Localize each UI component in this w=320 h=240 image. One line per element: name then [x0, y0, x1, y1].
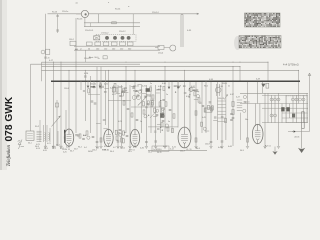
- svg-text:90-7: 90-7: [104, 149, 108, 151]
- output transformer circle: [215, 84, 221, 96]
- arrow sym right top: [308, 73, 311, 76]
- wire v x289.5: [289, 104, 291, 119]
- resistor R22: [173, 114, 175, 118]
- label 4+4 ohm: [283, 64, 299, 67]
- svg-text:90-5: 90-5: [128, 151, 132, 153]
- wire v x211: [210, 81, 212, 146]
- switch contact bank 2: [95, 42, 101, 46]
- svg-text:150-5: 150-5: [156, 90, 161, 92]
- svg-text:90-9: 90-9: [240, 150, 244, 152]
- svg-text:0-40: 0-40: [66, 147, 70, 149]
- svg-text:90-6: 90-6: [204, 86, 208, 88]
- between tube comps: [79, 129, 128, 139]
- capacitor C32: [162, 120, 165, 121]
- dense cluster det2: [116, 88, 129, 96]
- svg-text:0-21: 0-21: [47, 143, 51, 145]
- component cluster V2V3 mid: [115, 130, 125, 143]
- svg-text:150-22: 150-22: [90, 83, 96, 85]
- wire v x57: [56, 100, 58, 146]
- label U150: [101, 32, 109, 34]
- svg-text:150-12: 150-12: [119, 31, 126, 33]
- wire v x30.5: [30, 64, 32, 131]
- svg-text:0-32: 0-32: [191, 86, 195, 88]
- wire heater run y22.8: [84, 22, 140, 24]
- push button 2: [113, 36, 117, 40]
- wire keyboard row top y46.2: [74, 45, 160, 47]
- volume link wire: [88, 94, 100, 96]
- svg-text:150-8: 150-8: [64, 88, 69, 90]
- wire v x275: [274, 95, 276, 122]
- capacitor C33: [202, 105, 205, 106]
- switch box on x57: [55, 103, 58, 107]
- svg-text:CL 11: CL 11: [186, 149, 192, 151]
- wire v x41.5: [41, 62, 43, 81]
- svg-text:U 150-2: U 150-2: [101, 32, 109, 34]
- junction crosses on buses: [45, 62, 299, 71]
- wire x98.3 drop: [97, 14, 99, 23]
- label 150-12: [119, 31, 126, 33]
- label 150-16.5: [85, 30, 94, 32]
- dense cluster AF2b: [189, 88, 200, 100]
- svg-text:078 GWK: 078 GWK: [4, 96, 15, 141]
- label 0-26b: [104, 83, 108, 85]
- cluster PSU lower left: [243, 102, 250, 112]
- trimmer box T1: [103, 56, 107, 59]
- svg-text:0-36: 0-36: [140, 147, 144, 149]
- wire v x268 lower: [267, 93, 269, 122]
- wire v x178: [177, 81, 179, 127]
- wire grid bus y64.2: [31, 63, 141, 65]
- switch lamp window: [94, 36, 100, 40]
- wire v x90.5: [90, 76, 92, 133]
- capacitor C30: [230, 113, 233, 120]
- push button 4: [127, 36, 131, 40]
- svg-text:300: 300: [128, 48, 131, 50]
- more bottom text: [35, 146, 244, 153]
- IF trimmer arrow 1: [138, 96, 147, 105]
- switch contact bank 1: [87, 42, 93, 46]
- svg-text:Telefunken: Telefunken: [7, 145, 12, 167]
- junction dots on chassis bus: [53, 81, 300, 83]
- tube layout chart upper: [245, 13, 281, 27]
- wire PSU row y103.5: [240, 103, 308, 105]
- wire v x233: [232, 67, 234, 146]
- ground symbols bottom mid: [95, 146, 280, 148]
- wire v x81 stub: [80, 81, 82, 90]
- wire v x286: [285, 95, 287, 122]
- wire v x118: [117, 85, 119, 146]
- output transformer winding ladder: [237, 100, 242, 110]
- resistor R1 on heater run: [112, 22, 117, 24]
- scatter labels mid: [64, 86, 248, 123]
- wire v x121.5: [121, 85, 123, 146]
- svg-text:90-14: 90-14: [115, 9, 121, 11]
- svg-text:90-1: 90-1: [52, 146, 56, 148]
- svg-text:30-7: 30-7: [70, 151, 74, 153]
- svg-text:5n: 5n: [168, 121, 170, 123]
- capacitor C1 on x45.5: [44, 57, 47, 58]
- label ballast: [295, 136, 300, 139]
- antenna trimmer circle: [170, 45, 176, 51]
- wire AF link y100.3: [108, 99, 131, 101]
- svg-text:0-5: 0-5: [104, 146, 107, 148]
- push button 1: [105, 36, 109, 40]
- wire v x222: [221, 81, 223, 146]
- wire lamp to switch x133.2: [132, 14, 134, 35]
- switch contact bank 3: [103, 42, 109, 46]
- tap triangle 1: [87, 81, 90, 88]
- output transformer rungs: [218, 101, 226, 121]
- dial lamp L1: [76, 10, 89, 17]
- wire screen bus y66.6: [42, 66, 241, 68]
- svg-text:30-1: 30-1: [28, 143, 32, 145]
- svg-text:0-25: 0-25: [63, 152, 67, 154]
- wire link box-circle: [164, 47, 170, 49]
- wire v x259.9: [259, 104, 261, 127]
- svg-text:150-1a: 150-1a: [62, 11, 69, 13]
- wire v x101: [100, 67, 102, 146]
- label 0-17: [49, 60, 54, 62]
- wire v x298.5 upper: [298, 70, 300, 103]
- electrolytic C51 dark: [286, 107, 289, 111]
- label speaker: [256, 79, 260, 81]
- svg-text:90-8: 90-8: [196, 148, 200, 150]
- scan smudge: [234, 36, 241, 50]
- tube V1 ECH11: [64, 129, 73, 146]
- phono jack circle: [41, 50, 45, 54]
- label Abstimm: [89, 56, 99, 59]
- svg-text:0-14: 0-14: [170, 149, 174, 151]
- wire v x307: [306, 93, 308, 122]
- label row tuning bottom: [36, 148, 64, 150]
- wire PSU row y122.7: [262, 122, 308, 124]
- electrolytic C52 dark: [292, 114, 295, 118]
- cluster AF lower: [199, 102, 214, 112]
- wire v x303.5: [303, 95, 305, 122]
- svg-text:0-11: 0-11: [133, 147, 136, 149]
- wire v x57.6 top: [57, 14, 59, 33]
- cluster V4 left: [154, 127, 163, 132]
- wire v x76: [75, 18, 77, 133]
- wire anode bus y70.4: [42, 69, 299, 71]
- phono box: [46, 49, 50, 54]
- IF trimmer arrow 2: [150, 111, 157, 119]
- wire heater run y26.6: [84, 26, 140, 28]
- label 90-16: [77, 19, 83, 21]
- tap triangle 3: [99, 81, 102, 88]
- wire v x262.3 speaker drop: [261, 81, 263, 93]
- wire v x293: [292, 95, 294, 122]
- wire PSU row y108.2: [262, 107, 308, 109]
- svg-text:50n: 50n: [245, 119, 248, 121]
- resistor R24: [195, 111, 197, 115]
- component cluster between V1V2: [96, 120, 108, 129]
- wire v x135 to tube V3: [134, 70, 136, 129]
- junction mains: [292, 130, 295, 132]
- wire v x268 upper: [267, 62, 269, 81]
- tube V2 EBF11: [104, 129, 113, 146]
- label 0-47: [236, 97, 240, 99]
- heater chain circles row2: [292, 98, 306, 101]
- wire PSU row y118: [282, 117, 308, 119]
- svg-text:100: 100: [96, 48, 99, 50]
- svg-text:0-28: 0-28: [110, 87, 114, 89]
- wire v x257.7: [257, 81, 259, 103]
- more mid labels: [112, 83, 234, 98]
- coil L4: [49, 133, 50, 141]
- wire v x66: [65, 110, 67, 130]
- svg-text:0-47: 0-47: [236, 97, 240, 99]
- wire v x296.5: [296, 95, 298, 122]
- wire x85.3 upper: [84, 50, 86, 62]
- wire v x190: [189, 81, 191, 133]
- feedback wire x240.5: [240, 113, 242, 140]
- tap triangle 4: [168, 81, 171, 89]
- label 150-14: [152, 12, 159, 14]
- tap triangle 5: [177, 81, 180, 89]
- svg-text:150-13: 150-13: [218, 98, 224, 100]
- svg-text:0-4: 0-4: [84, 147, 87, 149]
- wire v x278.5: [278, 93, 280, 146]
- svg-text:Ia 49/50: Ia 49/50: [154, 149, 163, 151]
- resistor ballast tall: [302, 112, 305, 129]
- left page edge shading: [0, 0, 7, 170]
- label 30-2: [35, 126, 40, 128]
- dark blob IF2: [146, 88, 150, 92]
- label row under contacts: [80, 48, 131, 50]
- antenna coil box: [26, 131, 34, 140]
- bottom label row: [66, 144, 222, 154]
- dark blob det: [160, 113, 164, 118]
- boxes x233: [232, 102, 235, 119]
- heater chain circles row1: [270, 98, 280, 101]
- wire v x196: [195, 81, 197, 146]
- wire v x113.7: [113, 85, 115, 133]
- svg-text:0-46: 0-46: [228, 146, 232, 148]
- svg-text:150-11: 150-11: [133, 86, 139, 88]
- top tiny a5: [76, 2, 79, 4]
- label 90-14: [115, 9, 121, 11]
- coupling caps x92-95: [91, 101, 97, 104]
- switch window X: [94, 36, 100, 40]
- label 150-22: [90, 83, 96, 85]
- svg-text:0-31: 0-31: [142, 85, 146, 87]
- band switch bar: [64, 130, 66, 143]
- wire v x225.9: [225, 81, 227, 140]
- component cluster IF2: [131, 85, 152, 98]
- top tiny a: [108, 2, 110, 4]
- svg-text:0-29: 0-29: [118, 121, 122, 123]
- IF area extra pieces: [116, 88, 161, 121]
- svg-text:2n: 2n: [98, 58, 100, 60]
- wire v x202: [201, 81, 203, 133]
- component cluster osc section: [83, 89, 90, 93]
- cluster mid IF lower: [143, 100, 165, 118]
- boxed stamp label: [152, 146, 169, 151]
- svg-text:2n: 2n: [150, 83, 152, 85]
- svg-text:10-6: 10-6: [148, 151, 152, 153]
- pot box x113.7: [112, 87, 115, 92]
- wire v x165: [164, 67, 166, 146]
- model title 078 GWK: [4, 96, 15, 141]
- svg-text:90-16: 90-16: [77, 19, 83, 21]
- wire IF link y107: [131, 106, 162, 108]
- chassis bus heavy y81.3: [51, 80, 300, 82]
- wire v x184.5 to tube V4: [184, 70, 186, 127]
- wire PSU row y113: [282, 112, 308, 114]
- arrowhead right end of dial run: [197, 13, 199, 15]
- label 2n b: [98, 58, 100, 60]
- oscillator coil can: [132, 95, 140, 99]
- svg-text:150-2: 150-2: [69, 39, 74, 41]
- wire v x85.3: [84, 70, 86, 121]
- component cluster V4 grid: [157, 123, 169, 130]
- component cluster det: [155, 86, 164, 93]
- svg-text:250: 250: [120, 48, 123, 50]
- brand title Telefunken: [7, 145, 12, 167]
- svg-text:0-27: 0-27: [112, 94, 116, 96]
- capacitor C31: [169, 109, 172, 110]
- wire v x309.5 mains: [309, 73, 311, 132]
- component cluster IF1 top: [90, 84, 109, 93]
- wire v x69 to tube V1: [68, 70, 70, 129]
- wire v x53.5: [53, 62, 55, 146]
- tube layout chart lower: [239, 36, 281, 49]
- svg-text:90-2: 90-2: [78, 147, 82, 149]
- label 0-26: [84, 73, 89, 75]
- wire heater tick x90.5: [90, 23, 92, 27]
- wire v x97: [96, 67, 98, 146]
- top tiny mark right: [128, 5, 130, 8]
- svg-text:150-14: 150-14: [152, 12, 159, 14]
- svg-text:2n: 2n: [228, 86, 230, 88]
- svg-text:90-4: 90-4: [110, 151, 114, 153]
- capacitor on x57.6 lower: [56, 30, 59, 31]
- wire top dial-lamp run y14: [48, 13, 200, 15]
- svg-text:150-7: 150-7: [180, 151, 185, 153]
- tuning bottom text 2: [28, 143, 60, 147]
- switch contact bank 5: [120, 42, 126, 46]
- label 150-13: [218, 98, 224, 100]
- component cluster output right: [201, 122, 210, 131]
- heater chain circles row3: [270, 114, 277, 117]
- svg-text:90-13: 90-13: [52, 12, 58, 14]
- switch contact bank 6: [127, 42, 133, 46]
- coil L3: [45, 133, 46, 141]
- svg-text:0-38: 0-38: [209, 79, 213, 81]
- wire v x141.7: [141, 85, 143, 133]
- wire mains link y131.5: [288, 131, 310, 133]
- component row y142: [96, 138, 249, 143]
- wire v x247.5: [247, 81, 249, 146]
- label V3: [129, 149, 135, 151]
- mains plug arrow main: [298, 128, 305, 153]
- resistor R21: [165, 102, 167, 106]
- component cluster PSU left: [243, 95, 246, 102]
- switch contact bank 4: [111, 42, 117, 46]
- wire v x105.7: [105, 70, 107, 125]
- svg-text:50p: 50p: [196, 91, 199, 93]
- wire AVC bus y62.2: [42, 61, 269, 63]
- capacitor on x57.6 upper: [56, 15, 59, 16]
- mains plug arrow second: [272, 147, 277, 155]
- speaker LS: [261, 83, 269, 88]
- wire v x146.4: [145, 85, 147, 146]
- wire v x45.5: [45, 14, 47, 146]
- label AZ 11: [265, 145, 271, 148]
- wire v x108.5 to tube V2: [108, 70, 110, 129]
- wire v x61: [60, 62, 62, 146]
- wire PSU row y93.3: [240, 92, 308, 94]
- component cluster AF top: [174, 85, 187, 93]
- svg-text:90-3: 90-3: [133, 91, 137, 93]
- label AB: [75, 48, 78, 51]
- label EBF 11: [102, 149, 110, 151]
- label ECH 11: [63, 149, 71, 151]
- wire v x172: [171, 81, 173, 133]
- svg-text:1n: 1n: [166, 94, 168, 96]
- PSU dashed box: [286, 96, 307, 122]
- push button 3: [121, 36, 125, 40]
- tube V5 AZ11 rectifier: [252, 124, 263, 143]
- label 0-30b: [162, 83, 166, 85]
- wire v x126: [125, 67, 127, 133]
- wire v x282: [281, 104, 283, 123]
- tuning verticals short: [40, 120, 58, 146]
- wire v x253: [255, 104, 257, 127]
- wire bottom return y150.7: [148, 150, 207, 152]
- label CL 11: [186, 149, 192, 151]
- capacitor C2 on x85.3: [84, 76, 87, 77]
- handwritten half mark: [18, 140, 24, 150]
- wire v x217.5: [217, 81, 219, 140]
- svg-text:150-3: 150-3: [92, 150, 97, 152]
- driver box: [205, 108, 212, 112]
- wire v x151: [150, 85, 152, 133]
- wire y47.5 link: [155, 47, 158, 49]
- svg-text:0-23: 0-23: [36, 144, 40, 146]
- label 90-13 150-1a: [52, 11, 69, 13]
- component cluster NFB: [213, 116, 226, 122]
- wire v x206: [205, 81, 207, 133]
- wire v x130: [129, 85, 131, 146]
- tube V3 ECH11b: [130, 129, 139, 146]
- label 0-38: [209, 79, 213, 81]
- svg-text:0-20: 0-20: [43, 150, 47, 152]
- svg-text:150-16.5: 150-16.5: [85, 30, 94, 32]
- component cluster grid V1 left: [75, 135, 90, 140]
- svg-text:30-3: 30-3: [56, 145, 60, 147]
- wire v x265: [264, 93, 266, 146]
- coupling box: [158, 46, 164, 50]
- svg-text:4+4 Ω/700mΩ: 4+4 Ω/700mΩ: [283, 64, 299, 67]
- svg-text:30-8: 30-8: [35, 146, 39, 148]
- wire v x160.4: [159, 85, 161, 133]
- resistor R23: [198, 98, 200, 102]
- svg-text:150-18: 150-18: [84, 58, 91, 60]
- wire lamp drop x84.9: [84, 18, 86, 27]
- svg-text:150-9: 150-9: [205, 144, 210, 146]
- svg-text:200: 200: [112, 48, 115, 50]
- label 150-18: [84, 58, 91, 60]
- grid resistors V4: [167, 127, 173, 133]
- ground symbols tuning row: [44, 146, 63, 148]
- label 0-35: [187, 30, 192, 32]
- tube V4 ECL11 output: [178, 127, 191, 148]
- component cluster IF amp top: [114, 83, 123, 87]
- wire v x155.7: [155, 85, 157, 146]
- svg-text:0-30: 0-30: [162, 83, 166, 85]
